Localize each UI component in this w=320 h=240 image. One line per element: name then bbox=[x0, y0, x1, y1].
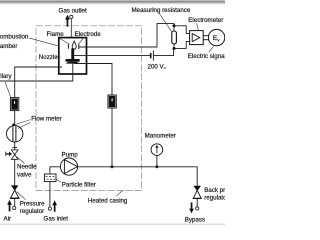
gas inlet port circle bbox=[48, 207, 51, 210]
svg-text:Particle filter: Particle filter bbox=[62, 181, 96, 188]
label pointer: combustion chamber bbox=[29, 38, 59, 46]
electrode right tick bbox=[78, 43, 80, 49]
flow meter FM bbox=[7, 126, 23, 142]
label pointer: heated casing bbox=[116, 191, 123, 197]
wire: needle valve to pressure regulator bbox=[14, 159, 16, 186]
wire: air line into chamber bbox=[15, 67, 62, 97]
sample line from chamber to capillary riser bbox=[74, 64, 112, 96]
svg-text:Manometer: Manometer bbox=[145, 133, 176, 140]
wire: capillary to flow meter bbox=[14, 111, 16, 126]
wire: electrode to measuring resistor (collector lead) bbox=[79, 24, 174, 47]
svg-text:regulator: regulator bbox=[20, 208, 44, 215]
capillary restrictor (sample riser) bbox=[108, 95, 116, 108]
svg-text:Combustion: Combustion bbox=[0, 34, 29, 41]
wire: flow meter to needle valve bbox=[14, 142, 16, 150]
label pointer: electrometer amplifier bbox=[197, 23, 199, 30]
back pressure regulator V3 bbox=[193, 186, 202, 198]
svg-text:Electrode: Electrode bbox=[75, 31, 102, 38]
node: sample riser junction bbox=[111, 165, 114, 168]
label pointer: capillary bbox=[5, 82, 11, 97]
needle valve adjuster arrow bbox=[6, 152, 12, 157]
wire: particle filter to pump bbox=[50, 167, 61, 174]
node: resistor top junction bbox=[173, 24, 176, 27]
svg-text:Flame: Flame bbox=[47, 31, 65, 38]
svg-text:Back pressure: Back pressure bbox=[204, 187, 225, 194]
wire: battery to resistor bottom bbox=[154, 48, 174, 55]
svg-text:regulator: regulator bbox=[204, 194, 225, 201]
node: flow meter top bbox=[12, 123, 15, 126]
svg-text:Pump: Pump bbox=[62, 152, 79, 159]
air port circle bbox=[13, 206, 16, 209]
label pointer: Flame bbox=[59, 38, 70, 45]
svg-text:valve: valve bbox=[17, 171, 32, 178]
gas outlet flow arrow bbox=[65, 15, 70, 27]
measuring resistance (capsule) bbox=[172, 31, 177, 44]
label pointer: Electrode bbox=[79, 38, 83, 43]
manometer M1 bbox=[151, 144, 163, 156]
label pointer: electric signal bbox=[209, 46, 214, 52]
svg-text:Gas inlet: Gas inlet bbox=[44, 216, 69, 223]
needle valve V1 bbox=[11, 148, 18, 160]
label pointer: measuring resistance bbox=[159, 13, 172, 32]
svg-text:Pressure: Pressure bbox=[20, 201, 45, 208]
wire: resistor bottom rail to amplifier bbox=[174, 41, 190, 48]
electrode left tick bbox=[67, 44, 69, 48]
label pointer: particle filter bbox=[56, 179, 61, 182]
air inlet arrow bbox=[7, 200, 12, 212]
particle filter F1 bbox=[44, 174, 56, 182]
bypass outflow arrow bbox=[189, 202, 194, 213]
pump P1 bbox=[60, 158, 77, 175]
wire: resistor top rail to amplifier bbox=[174, 26, 190, 34]
main sample line to bypass bbox=[78, 167, 198, 186]
wire: gas outlet riser bbox=[70, 19, 72, 38]
label pointer: Nozzle bbox=[56, 56, 61, 59]
capillary restrictor (air line) bbox=[10, 98, 18, 111]
svg-text:Needle: Needle bbox=[17, 163, 37, 170]
flame symbol bbox=[72, 41, 76, 49]
svg-text:Electrometer amplifier: Electrometer amplifier bbox=[188, 17, 225, 24]
label pointer: pressure regulator bbox=[17, 192, 26, 200]
gas outlet port circle bbox=[70, 15, 73, 18]
node: manometer junction bbox=[155, 165, 158, 168]
svg-text:Nozzle: Nozzle bbox=[39, 54, 58, 61]
electrometer amplifier U1 bbox=[190, 31, 204, 45]
nozzle (burner jet) bbox=[66, 48, 80, 63]
label pointers: flow meter bbox=[15, 120, 31, 125]
bypass port circle bbox=[196, 207, 199, 210]
wire: sample riser to main line bbox=[111, 108, 113, 167]
svg-text:Heated casing: Heated casing bbox=[88, 198, 128, 205]
coupler between amplifier and signal circle bbox=[203, 36, 208, 40]
combustion chamber box bbox=[59, 38, 87, 74]
heated casing boundary (dashed) bbox=[36, 26, 142, 191]
electric signal source circle Ev bbox=[208, 29, 224, 45]
fuel gas line (clipped at left) bbox=[0, 64, 73, 81]
svg-text:Flow meter: Flow meter bbox=[31, 115, 62, 122]
battery 200V bbox=[151, 51, 154, 61]
wire: gas inlet to particle filter bbox=[49, 182, 51, 207]
node: resistor bottom junction bbox=[173, 47, 176, 50]
svg-text:Electric signal: Electric signal bbox=[188, 53, 225, 60]
svg-text:Capillary: Capillary bbox=[0, 73, 12, 80]
svg-text:Measuring resistance: Measuring resistance bbox=[132, 7, 191, 14]
wire: pressure regulator to air port bbox=[14, 198, 16, 206]
wire: nozzle to battery (polarizing lead) bbox=[74, 55, 150, 57]
svg-text:Air: Air bbox=[4, 215, 12, 222]
gas inlet arrow bbox=[52, 200, 57, 212]
wire: manometer stem bbox=[156, 155, 158, 166]
pressure regulator V2 bbox=[10, 186, 19, 199]
svg-text:Bypass: Bypass bbox=[185, 217, 205, 224]
label pointer: needle valve bbox=[17, 157, 25, 164]
svg-text:Gas outlet: Gas outlet bbox=[59, 8, 87, 15]
svg-text:chamber: chamber bbox=[0, 43, 17, 50]
wire: back pressure regulator to bypass port bbox=[196, 198, 198, 206]
svg-text:200 V=: 200 V= bbox=[148, 64, 167, 71]
